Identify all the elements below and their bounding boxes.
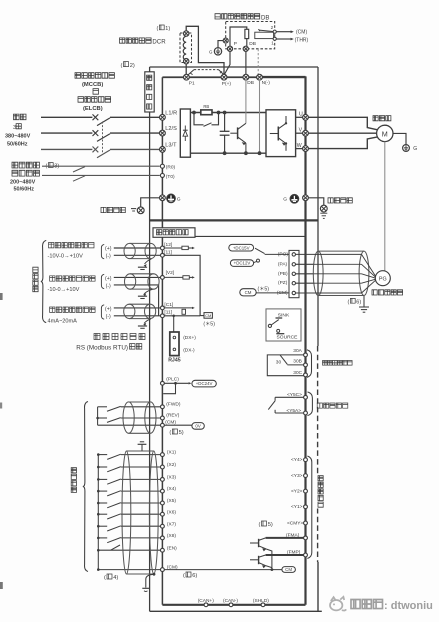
- terminal [12]: [161, 246, 165, 250]
- svg-text:V: V: [299, 128, 303, 134]
- svg-text:DB: DB: [247, 80, 254, 86]
- svg-text:CM: CM: [245, 290, 252, 295]
- outer inverter unit boundary: [150, 66, 318, 68]
- inner inverter block: [162, 76, 305, 78]
- wire motor to PG encoder: [384, 142, 386, 271]
- supply selector switch: [255, 248, 265, 253]
- external ground symbol right: [320, 205, 327, 212]
- wire input phase 1: [41, 116, 92, 118]
- shielded cable FWD/REV: [123, 402, 134, 433]
- svg-text:P1: P1: [189, 81, 195, 87]
- wire N(-) terminal down: [259, 80, 261, 153]
- svg-text:-10-0→+10V: -10-0→+10V: [48, 287, 80, 293]
- svg-text:4mA~20mA: 4mA~20mA: [48, 318, 78, 324]
- PG cable wire: [314, 292, 362, 294]
- svg-text:: dtwoniu: : dtwoniu: [384, 600, 433, 612]
- PG cable wire: [314, 253, 362, 255]
- resistor inside DB box: [245, 29, 249, 38]
- inverter block: [266, 110, 296, 157]
- svg-text:5): 5): [179, 430, 184, 436]
- svg-text:(T0): (T0): [166, 174, 175, 180]
- internal 0V oval: [164, 424, 192, 426]
- positive DC bus: [190, 112, 266, 114]
- terminal (T0): [160, 173, 164, 177]
- svg-text:[C1]: [C1]: [164, 302, 173, 308]
- PG terminal (PO): [292, 253, 295, 256]
- svg-text:(: (: [348, 299, 350, 305]
- DB box grounding terminal: [223, 38, 228, 43]
- wire resistor to DB terminal: [246, 39, 248, 47]
- svg-text:(CAN-): (CAN-): [223, 598, 238, 604]
- svg-text:(X1): (X1): [167, 450, 176, 456]
- rectifier block: [180, 109, 190, 157]
- svg-text:(＊5): (＊5): [258, 287, 270, 293]
- svg-text:DB: DB: [261, 14, 269, 21]
- analog labels group3: [50, 307, 55, 312]
- svg-text:(: (: [169, 430, 171, 436]
- wire contact 2 to (CM): [276, 31, 291, 33]
- svg-text:[11]: [11]: [164, 310, 172, 316]
- svg-text:2: 2: [271, 25, 274, 30]
- svg-text:RS (Modbus RTU): RS (Modbus RTU): [76, 344, 128, 351]
- thermal contact in DB box: [258, 29, 260, 31]
- svg-text:G: G: [177, 197, 181, 203]
- svg-text:(MCCB): (MCCB): [82, 82, 103, 88]
- terminal (FMP): [304, 553, 308, 557]
- svg-text:L1/R: L1/R: [165, 110, 177, 116]
- svg-text:RB: RB: [203, 104, 209, 109]
- svg-text:30C: 30C: [293, 370, 302, 376]
- svg-text:(: (: [259, 522, 261, 528]
- grounding terminal label 接地端子 left: [101, 207, 106, 212]
- terminal <Y2>: [304, 489, 308, 493]
- svg-text:-10V-0→+10V: -10V-0→+10V: [48, 254, 84, 260]
- charging bypass contactor: [194, 113, 204, 125]
- digital cable shield ground top: [141, 445, 143, 451]
- terminal P of DB box: [227, 46, 232, 51]
- PG terminal (PB): [292, 272, 295, 275]
- internal CM reference box: [204, 313, 212, 319]
- analog group1 wires (+)/(-) to [12]/[11]: [101, 244, 104, 258]
- digital input (X2): [97, 466, 100, 469]
- bracket transistor outputs: [307, 456, 311, 559]
- digital input (X4): [97, 490, 100, 493]
- terminal (REV): [161, 416, 165, 420]
- DC bus thick segment: [260, 76, 306, 78]
- svg-text:L2/S: L2/S: [165, 126, 177, 132]
- analog labels group1: [49, 243, 54, 248]
- svg-text:[12]: [12]: [164, 242, 172, 248]
- wire (FMP): [266, 554, 304, 556]
- wire input phase 2: [41, 132, 92, 134]
- terminal <Y3>: [304, 474, 308, 478]
- terminal 30B: [304, 363, 308, 367]
- svg-text:2): 2): [130, 63, 135, 69]
- svg-text:(FMA): (FMA): [286, 532, 300, 538]
- wire to external ground left: [141, 198, 160, 207]
- svg-text:+DC15V: +DC15V: [233, 245, 250, 250]
- PG cable wire: [314, 273, 362, 275]
- terminal L3/T: [160, 147, 166, 153]
- control circuit part label box 控制电路部: [153, 228, 195, 238]
- inverter IGBT symbol: [285, 116, 287, 123]
- svg-text:(CM): (CM): [277, 290, 288, 296]
- svg-text:DCR: DCR: [152, 39, 166, 46]
- PG terminal strip box: [289, 250, 299, 297]
- svg-text:<Y4>: <Y4>: [291, 457, 303, 463]
- svg-text:P: P: [234, 41, 237, 47]
- wire R0: [42, 165, 160, 167]
- svg-text:[11]: [11]: [164, 250, 172, 256]
- svg-text:U: U: [299, 112, 303, 118]
- digital input (X8): [97, 537, 100, 540]
- wire contact 1 to (THR): [276, 38, 291, 40]
- internal supply +DC24V oval: [192, 380, 216, 387]
- PG terminal (PA): [292, 263, 295, 266]
- power source labels: [14, 114, 20, 120]
- svg-text:(FWD): (FWD): [166, 401, 181, 407]
- wire DB down to DB bus terminal: [245, 51, 247, 74]
- input resistor on [12]: [164, 247, 182, 249]
- FWD/REV common bus: [97, 407, 99, 425]
- svg-text:(: (: [104, 575, 106, 581]
- PG encoder circle: [375, 271, 390, 286]
- svg-text:(DX-): (DX-): [183, 348, 195, 354]
- shielded cable digital inputs: [122, 451, 131, 574]
- terminal [11] second: [161, 314, 165, 318]
- shielded cable to PG: [313, 251, 323, 295]
- svg-text:(X3): (X3): [167, 475, 176, 481]
- terminal <Y1>: [304, 505, 308, 509]
- shield ground arrow 1: [145, 259, 152, 264]
- svg-text:(CAN+): (CAN+): [198, 598, 215, 604]
- PG terminal (CM): [292, 291, 295, 294]
- terminal L2/S: [160, 130, 166, 136]
- svg-text:0V: 0V: [195, 424, 200, 429]
- external ground symbol left: [137, 207, 144, 214]
- svg-text:(PA): (PA): [278, 261, 288, 267]
- bracket alarm output: [307, 350, 312, 378]
- input resistor on [C1]: [164, 307, 192, 309]
- control circuit top edge: [162, 235, 305, 237]
- terminal L1/R: [160, 114, 166, 120]
- shielded cable analog 3: [124, 304, 135, 318]
- MCCB pole 2: [93, 130, 99, 136]
- PG label 脉冲编码器: [372, 290, 377, 295]
- aux control power labels: [12, 162, 18, 168]
- watermark text: [351, 600, 360, 609]
- digital input (X5): [97, 502, 100, 505]
- terminal 30C: [304, 373, 308, 377]
- shielded cable analog 1: [124, 243, 135, 258]
- wire DB terminal down: [245, 80, 247, 123]
- svg-text:L3/T: L3/T: [165, 142, 177, 148]
- svg-text:(-): (-): [106, 253, 111, 259]
- svg-text:(-): (-): [106, 314, 111, 320]
- terminal (CM) digital: [97, 568, 100, 571]
- svg-text:(-): (-): [106, 283, 111, 289]
- svg-text:(CM): (CM): [296, 30, 307, 36]
- terminal Y5C: [304, 395, 308, 399]
- P1-P(+) jumper bar: [188, 70, 195, 76]
- motor wires: [308, 117, 377, 130]
- svg-text:(: (: [157, 26, 159, 32]
- relay 30 contact: [267, 355, 303, 376]
- braking transistor: [237, 127, 239, 139]
- svg-text:200~480V: 200~480V: [10, 180, 36, 186]
- svg-text:50/60Hz: 50/60Hz: [14, 187, 35, 193]
- charging resistor RB: [201, 110, 212, 115]
- svg-text:P(+): P(+): [222, 81, 232, 87]
- svg-text:+DC12V: +DC12V: [234, 261, 251, 266]
- dashed lead above N(-): [257, 49, 259, 74]
- svg-text:(FMP): (FMP): [287, 549, 301, 555]
- digital input (X7): [97, 525, 100, 528]
- svg-text:SOURCE: SOURCE: [277, 335, 299, 341]
- svg-text:(PB): (PB): [278, 271, 288, 277]
- svg-text:G: G: [209, 49, 213, 54]
- terminal (R0): [160, 164, 164, 168]
- svg-text:(X8): (X8): [167, 533, 176, 539]
- shielded cable analog 2: [125, 274, 136, 289]
- terminal DB of DB box: [243, 46, 248, 51]
- terminal [C1]: [161, 306, 165, 310]
- output terminals U V W: [296, 116, 303, 118]
- svg-text:380~480V: 380~480V: [5, 134, 31, 140]
- svg-text:(R0): (R0): [166, 165, 176, 171]
- wire input phase 3: [41, 148, 92, 150]
- digital input (X1): [97, 453, 100, 456]
- external braking resistor DB dashed box: [226, 22, 275, 49]
- watermark icon: [330, 597, 346, 611]
- svg-text:<Y2>: <Y2>: [291, 489, 303, 495]
- svg-text:M: M: [382, 129, 388, 138]
- DC reactor DCR dashed box: [180, 33, 192, 63]
- svg-text:50/60Hz: 50/60Hz: [7, 142, 28, 148]
- svg-text:(: (: [121, 63, 123, 69]
- svg-text:(+): (+): [105, 246, 112, 252]
- svg-text:4): 4): [113, 575, 118, 581]
- analog labels group2: [50, 276, 55, 281]
- svg-text:(: (: [183, 573, 185, 579]
- svg-text:6): 6): [192, 573, 197, 579]
- svg-text:(PO): (PO): [278, 251, 289, 257]
- svg-text:(REV): (REV): [166, 413, 179, 419]
- svg-text:30B: 30B: [293, 359, 302, 365]
- left grounding terminal G: [160, 195, 166, 201]
- PG cable wire: [314, 263, 362, 265]
- terminal <Y4>: [304, 458, 308, 462]
- svg-text:30: 30: [276, 359, 282, 365]
- svg-text:N(-): N(-): [262, 80, 271, 86]
- svg-text:PG: PG: [379, 276, 387, 282]
- SINK/SOURCE selector box: [266, 309, 301, 341]
- svg-text:<Y3>: <Y3>: [291, 473, 303, 479]
- svg-text:(X5): (X5): [167, 498, 176, 504]
- FWD/REV switches and wires: [98, 406, 107, 408]
- braking resistor label 外部制动电阻器 DB: [215, 14, 220, 19]
- scan marks on left edge: [0, 293, 3, 300]
- wire P down to P(+): [224, 51, 230, 74]
- svg-text:(+): (+): [105, 276, 112, 282]
- svg-text:(PZ): (PZ): [278, 280, 288, 286]
- analog group3 wires: [101, 305, 104, 319]
- svg-text:6): 6): [356, 299, 361, 305]
- wire to external ground right: [308, 198, 324, 205]
- svg-text:(EN): (EN): [167, 545, 177, 551]
- keypad comm labels: [94, 334, 100, 340]
- svg-text:(＊5): (＊5): [203, 321, 215, 327]
- terminal (EN): [98, 549, 160, 551]
- terminal (CM): [161, 423, 165, 427]
- terminal <CMY>: [304, 521, 308, 525]
- main/control divider line: [150, 219, 318, 221]
- svg-text:[V2]: [V2]: [166, 270, 175, 276]
- FMP output transistor: [258, 556, 260, 564]
- PG cable shield ground: [363, 296, 365, 307]
- svg-text:(DX+): (DX+): [183, 335, 196, 341]
- bracket relay output: [308, 392, 313, 416]
- wire T0: [42, 174, 160, 176]
- DC bus terminals P1 P(+) DB N(-): [184, 74, 190, 80]
- terminal [V2]: [161, 276, 165, 280]
- DB box earth symbol: [214, 48, 221, 55]
- internal CM oval (*5): [240, 289, 256, 296]
- terminal Y5A: [304, 411, 308, 415]
- svg-text:(PLC): (PLC): [166, 377, 179, 383]
- terminal (SHLD): [261, 603, 265, 607]
- analog group2 wires: [101, 274, 104, 288]
- svg-text:1): 1): [165, 26, 170, 32]
- terminal (CAN+): [204, 603, 208, 607]
- label 整体警报输出: [323, 361, 328, 366]
- PG cable wire: [314, 282, 362, 284]
- svg-text:1: 1: [271, 40, 274, 45]
- digital input (X6): [97, 513, 100, 516]
- DCR coil: [183, 36, 186, 60]
- input resistor on [V2]: [164, 276, 183, 278]
- DC reactor label 直流电抗器 DCR: [120, 38, 125, 43]
- digital input common bus: [97, 455, 99, 570]
- wire (FMA): [266, 537, 304, 539]
- relay Y5 contact: [275, 396, 304, 398]
- negative DC bus: [190, 152, 266, 154]
- wire DCR top to P(+): [186, 26, 224, 74]
- RJ45 connector: [173, 316, 175, 332]
- PG terminal (PZ): [292, 282, 295, 285]
- svg-text:5): 5): [268, 522, 273, 528]
- terminal (CAN-): [229, 603, 233, 607]
- DCR terminals: [184, 31, 189, 36]
- svg-text:G: G: [283, 197, 287, 203]
- svg-text:<Y5A>: <Y5A>: [286, 408, 301, 414]
- analog input group brace 模拟输入: [41, 240, 46, 322]
- MCCB pole 3: [93, 147, 99, 153]
- svg-text:(SHLD): (SHLD): [253, 598, 269, 604]
- FMA output transistor: [258, 539, 260, 547]
- internal supply +DC12V oval: [230, 260, 253, 267]
- digital input brace 数字输入: [83, 402, 88, 572]
- wire P to resistor top: [230, 27, 247, 46]
- MCCB pole 1: [93, 114, 99, 120]
- svg-text:CM: CM: [285, 567, 292, 572]
- grounding terminal label 接地端子 right: [328, 198, 333, 203]
- main circuit part label box 主电路部: [145, 72, 154, 112]
- digital input (X3): [97, 478, 100, 481]
- digital cable shield ground bottom: [153, 573, 156, 576]
- shield ground arrow 2: [144, 289, 153, 294]
- svg-text:(X6): (X6): [167, 509, 176, 515]
- terminal 30A: [304, 353, 308, 357]
- svg-text:DB: DB: [249, 41, 256, 47]
- motor ground: [393, 133, 406, 144]
- svg-text:+DC24V: +DC24V: [196, 381, 213, 386]
- terminal (FMA): [304, 536, 308, 540]
- svg-text:CM: CM: [205, 313, 211, 318]
- terminal (PLC): [161, 381, 165, 385]
- svg-text:(ELCB): (ELCB): [83, 106, 103, 112]
- svg-text:W: W: [297, 143, 302, 149]
- wire [11] common to CM box: [164, 255, 204, 315]
- svg-text:(X2): (X2): [167, 462, 176, 468]
- terminal [11] common: [161, 253, 165, 257]
- MCCB labels: [75, 73, 81, 79]
- shield ground arrow 3: [144, 319, 151, 324]
- wire PLC to edge: [163, 383, 175, 393]
- DC link capacitor: [224, 113, 226, 132]
- wire CM bottom with oval: [164, 569, 282, 571]
- svg-text:(+): (+): [105, 306, 112, 312]
- wire DCR bottom to P1: [185, 64, 187, 74]
- MCCB mechanical link: [102, 122, 104, 153]
- svg-text:G: G: [413, 146, 417, 152]
- svg-text:30A: 30A: [293, 348, 302, 354]
- svg-text:(X4): (X4): [167, 486, 176, 492]
- SINK/SOURCE blade: [268, 324, 271, 327]
- rectifier diode symbol: [184, 126, 186, 131]
- svg-text:RJ45: RJ45: [168, 357, 181, 363]
- svg-text:<Y5C>: <Y5C>: [287, 392, 302, 398]
- svg-text:(THR): (THR): [295, 37, 309, 43]
- internal supply +DC15V oval: [229, 244, 254, 251]
- svg-text:<Y1>: <Y1>: [291, 504, 303, 510]
- terminal (FWD): [161, 405, 165, 409]
- label 继电器输出: [317, 403, 322, 408]
- label 晶体管输出 vertical: [316, 475, 325, 509]
- motor M: [377, 125, 393, 141]
- svg-text:(X7): (X7): [167, 521, 176, 527]
- svg-text:<CMY>: <CMY>: [287, 520, 303, 526]
